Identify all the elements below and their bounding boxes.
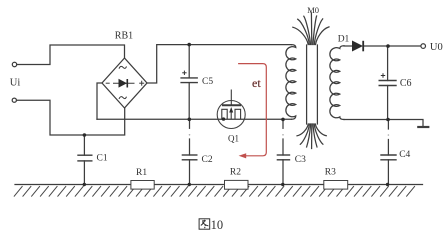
svg-text:C4: C4 bbox=[399, 150, 410, 160]
svg-text:Q1: Q1 bbox=[228, 133, 239, 143]
svg-text:Ui: Ui bbox=[10, 78, 21, 89]
svg-text:et: et bbox=[252, 76, 261, 90]
svg-text:C1: C1 bbox=[97, 154, 108, 164]
svg-text:R1: R1 bbox=[136, 168, 147, 178]
svg-text:R3: R3 bbox=[325, 168, 336, 178]
svg-text:U0: U0 bbox=[430, 42, 443, 53]
svg-text:C3: C3 bbox=[295, 155, 306, 165]
svg-text:M0: M0 bbox=[307, 5, 319, 15]
svg-text:C2: C2 bbox=[202, 155, 213, 165]
svg-text:RB1: RB1 bbox=[115, 31, 133, 42]
svg-text:C5: C5 bbox=[202, 77, 213, 87]
svg-text:D1: D1 bbox=[338, 35, 350, 45]
svg-text:10: 10 bbox=[211, 218, 224, 232]
svg-text:C6: C6 bbox=[400, 78, 412, 89]
svg-text:R2: R2 bbox=[230, 168, 241, 178]
